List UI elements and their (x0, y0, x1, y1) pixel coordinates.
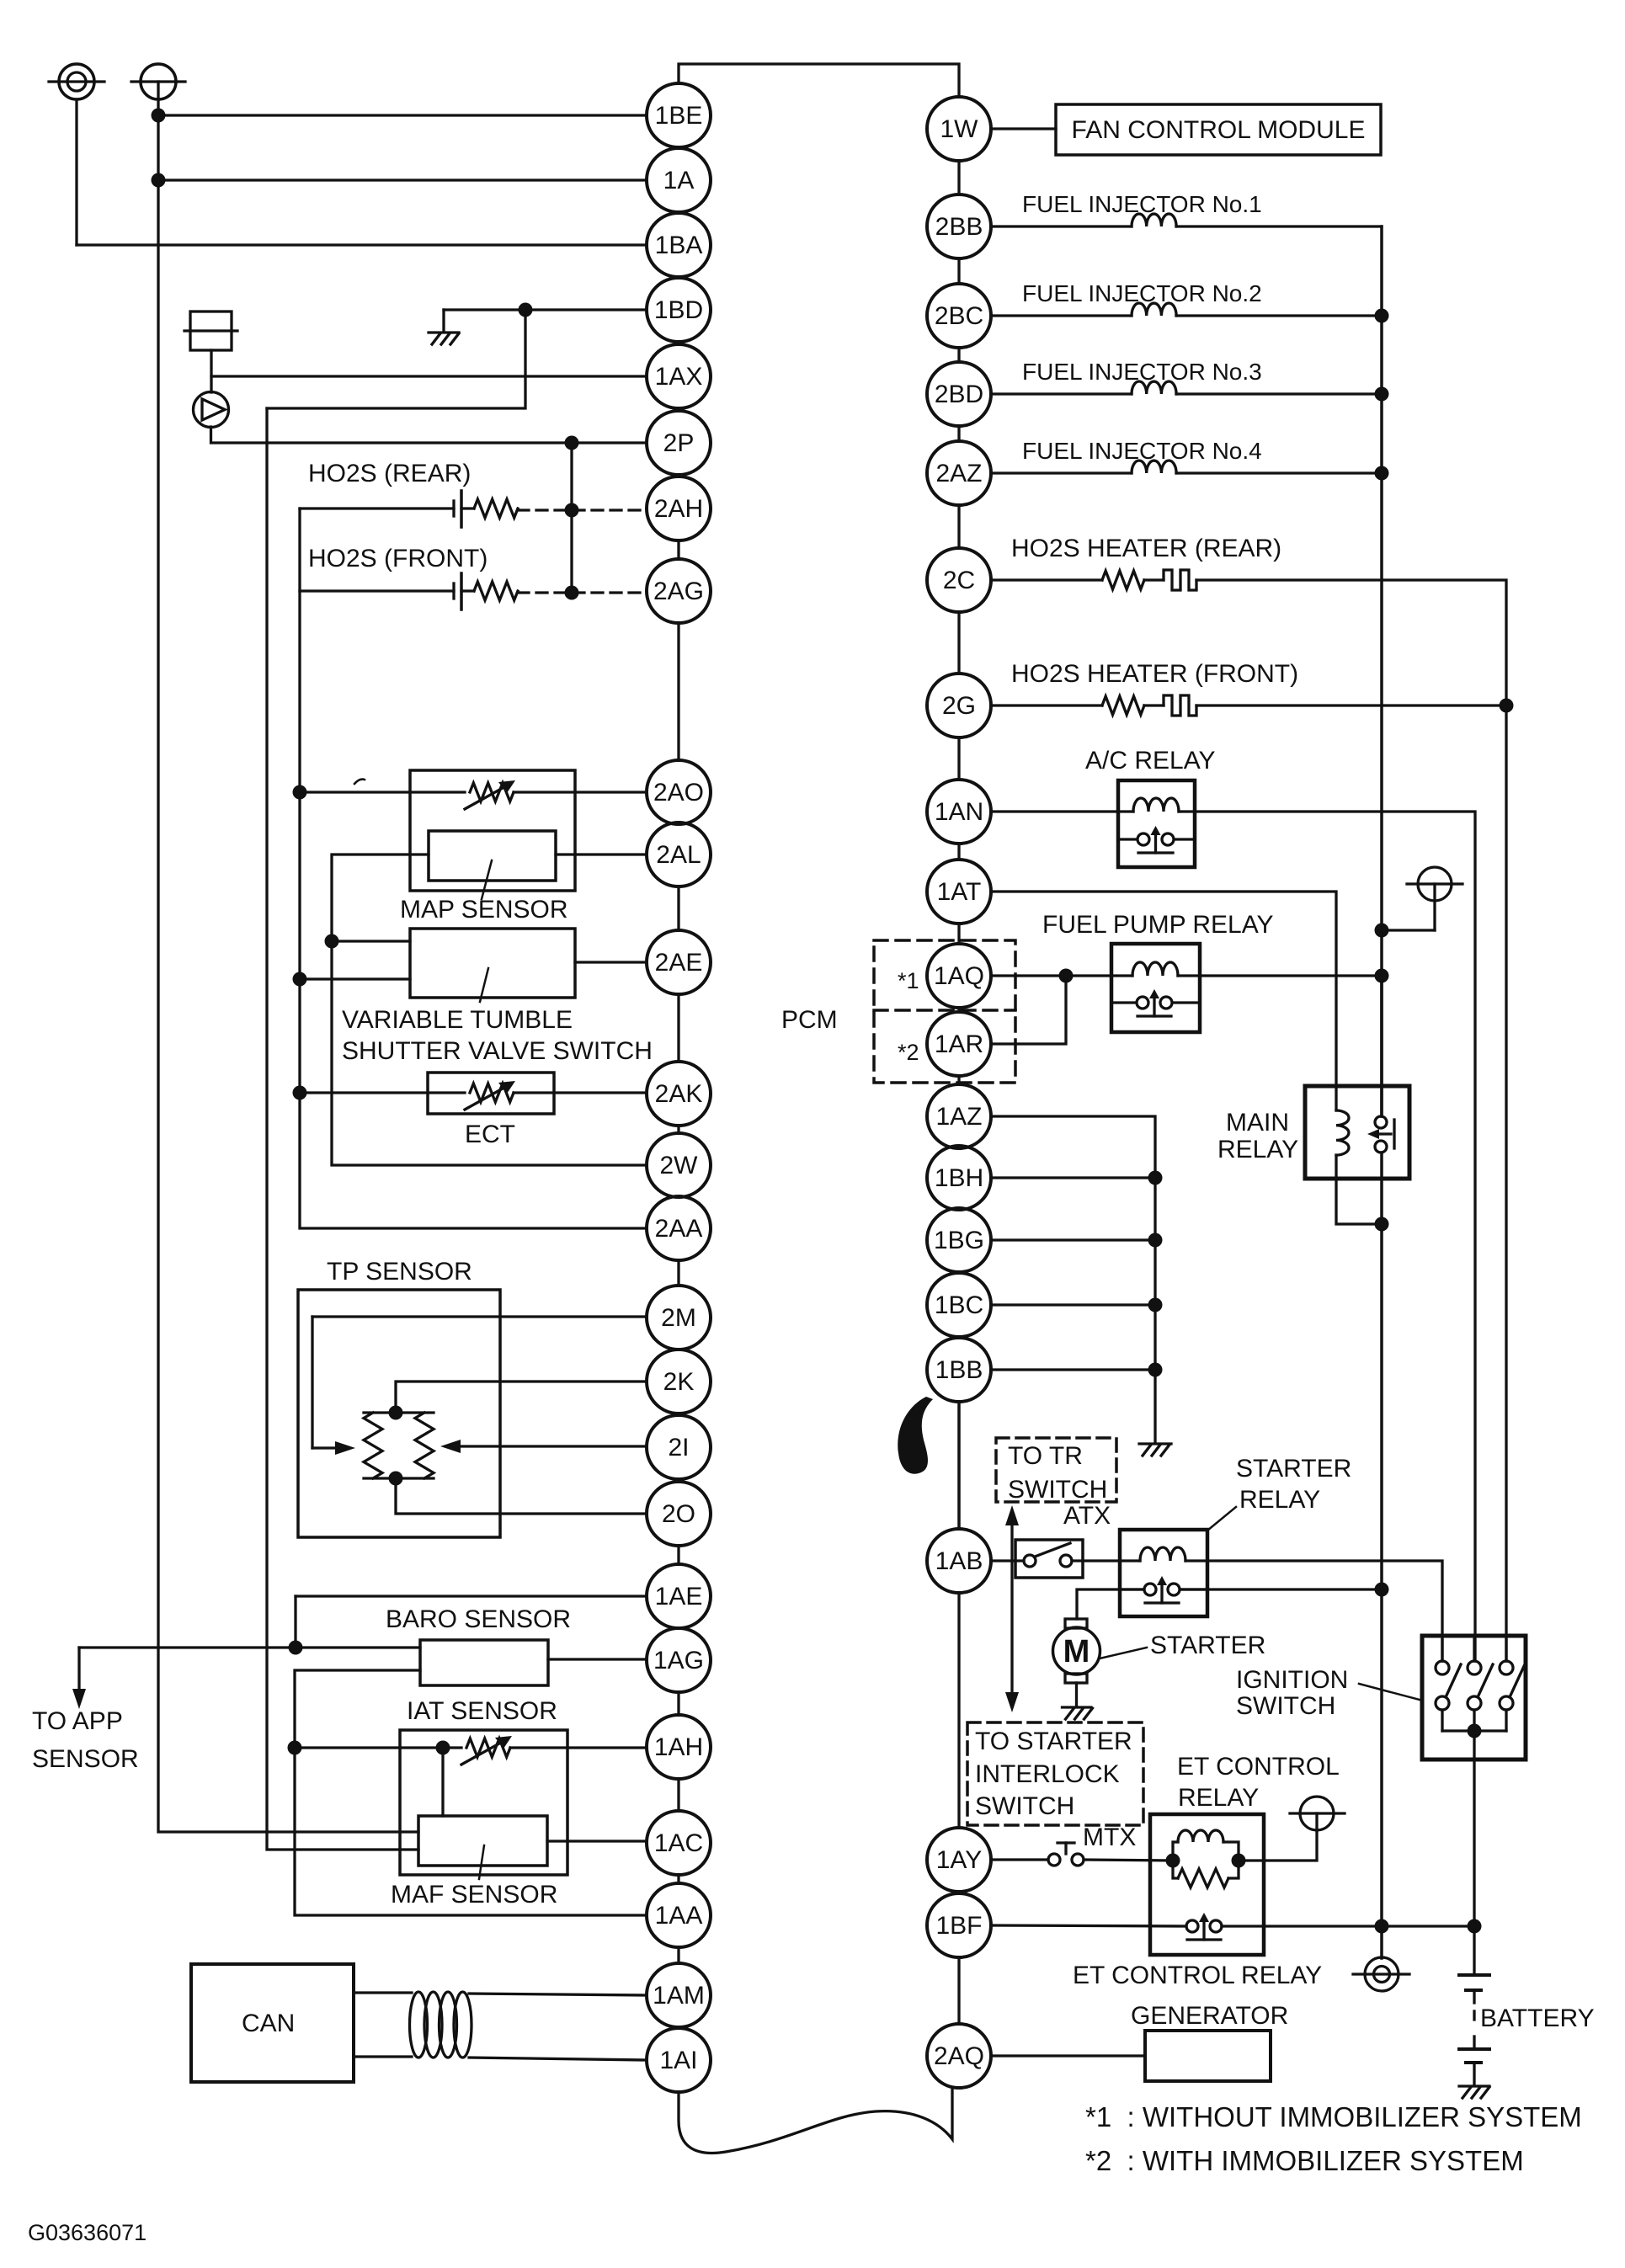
switch MTX (momentary) (1048, 1843, 1084, 1866)
wire 1W to module (991, 127, 1056, 130)
svg-text:SHUTTER VALVE SWITCH: SHUTTER VALVE SWITCH (342, 1037, 653, 1065)
node on VTSV lower wire (293, 972, 307, 987)
svg-text:1W: 1W (940, 115, 979, 143)
evap solenoid symbol (square) top-left (184, 311, 237, 392)
svg-text:2AQ: 2AQ (934, 2042, 984, 2070)
wire MTX to ET relay (1084, 1860, 1173, 1861)
resistor HO2S heater rear (1102, 571, 1144, 589)
pin 1BB (927, 1338, 991, 1402)
wire starter relay contact out (1180, 1588, 1382, 1590)
thermistor IAT (variable resistor) (466, 1738, 510, 1757)
pin 2BB (927, 194, 991, 258)
svg-text:2W: 2W (660, 1152, 699, 1179)
wire 1AC from MAF (547, 1839, 647, 1842)
wire 1AE (296, 1595, 647, 1597)
wire injector No.4 left (991, 471, 1132, 474)
svg-text:ET CONTROL: ET CONTROL (1177, 1753, 1340, 1781)
svg-text:M: M (1063, 1634, 1090, 1669)
svg-text:SENSOR: SENSOR (32, 1745, 139, 1773)
svg-text:HO2S HEATER (FRONT): HO2S HEATER (FRONT) (1011, 660, 1298, 688)
pin 1BE (647, 83, 711, 147)
svg-text:1BG: 1BG (934, 1227, 984, 1254)
node bus at G4 (1375, 924, 1389, 938)
pin 1AB (927, 1529, 991, 1593)
pin 2I (647, 1415, 711, 1479)
wire 1AR to join (991, 976, 1066, 1044)
svg-text:2M: 2M (661, 1304, 696, 1332)
ink blob artifact (898, 1397, 933, 1474)
stray mark r (354, 780, 365, 784)
wire dashed to 2AH (518, 508, 647, 511)
relay A/C (1118, 780, 1195, 867)
pcm divider dashed (874, 1009, 1015, 1012)
svg-text:FAN CONTROL MODULE: FAN CONTROL MODULE (1072, 116, 1366, 144)
ground G3 (chassis ground on 1BD wire) (429, 310, 459, 344)
node IAT inner (436, 1741, 450, 1755)
svg-text:1AA: 1AA (655, 1902, 703, 1930)
wire BARO lower-left (295, 1670, 647, 1915)
svg-text:TP SENSOR: TP SENSOR (327, 1258, 472, 1286)
wire bus x356 (sensor supply vertical) (300, 508, 647, 1228)
HO2S front sensor (battery symbol) (454, 573, 461, 610)
wire G2 long vertical down to MAF sensor (158, 99, 418, 1832)
callout starter motor (1100, 1648, 1147, 1658)
node on 2AH wire (565, 503, 579, 518)
arrow TP wiper right (from 2I) (460, 1445, 647, 1447)
wire 1AH right (510, 1746, 647, 1749)
node 1BG (1148, 1233, 1163, 1248)
ect box (428, 1073, 554, 1114)
ground G1 (double-circle body ground top-left) (49, 64, 104, 99)
svg-text:1AX: 1AX (655, 363, 703, 391)
pin 1AC (647, 1811, 711, 1875)
svg-text:2G: 2G (942, 692, 976, 720)
wire ECT right to 2AK (514, 1091, 647, 1094)
svg-text:SWITCH: SWITCH (1008, 1476, 1107, 1504)
svg-text:HO2S HEATER (REAR): HO2S HEATER (REAR) (1011, 535, 1281, 562)
svg-text:RELAY: RELAY (1178, 1784, 1259, 1812)
svg-text:2P: 2P (663, 429, 695, 457)
coil fuel injector No.1 (1132, 214, 1176, 226)
wire 1AZ (991, 1116, 1155, 1442)
svg-text:HO2S (REAR): HO2S (REAR) (308, 460, 471, 487)
svg-text:1BB: 1BB (935, 1356, 983, 1384)
svg-text:RELAY: RELAY (1239, 1486, 1320, 1514)
wire 1AG from BARO (548, 1658, 647, 1660)
wire links between left connector pins (677, 540, 679, 1963)
fan control module box (1056, 104, 1381, 155)
node on 2P wire (565, 436, 579, 450)
svg-text:CAN: CAN (242, 2010, 295, 2037)
svg-text:TO TR: TO TR (1008, 1442, 1083, 1470)
node TP bottom (389, 1472, 403, 1486)
pin 2AQ (927, 2024, 991, 2088)
pin 1AE (647, 1564, 711, 1628)
wire 1BE to 1W (top) (679, 64, 959, 97)
node ET coil left (1166, 1854, 1180, 1868)
svg-text:1BE: 1BE (655, 102, 703, 130)
svg-text:2BC: 2BC (935, 302, 983, 330)
wire TP bottom node to 2O (396, 1478, 647, 1514)
svg-text:A/C RELAY: A/C RELAY (1085, 747, 1216, 775)
pin 2AK (647, 1062, 711, 1126)
wire CAN lower (354, 2055, 412, 2058)
wire starter relay contact to motor (1077, 1589, 1143, 1619)
pin 1AZ (927, 1084, 991, 1148)
svg-text:VARIABLE TUMBLE: VARIABLE TUMBLE (342, 1006, 573, 1034)
pin 2C (927, 548, 991, 612)
svg-text:ET CONTROL RELAY: ET CONTROL RELAY (1073, 1962, 1322, 1989)
pin 1BD (647, 278, 711, 342)
svg-text:1AQ: 1AQ (934, 962, 984, 990)
starter motor (1053, 1619, 1100, 1719)
wire fuel pump relay out (1200, 974, 1382, 977)
wire 2AL from inner box (556, 853, 647, 855)
wire dashed to 2AG (518, 591, 647, 594)
node on 2AG wire (565, 586, 579, 600)
arrow TP wiper left (312, 1446, 337, 1449)
svg-text:SWITCH: SWITCH (1236, 1692, 1335, 1720)
svg-text:PCM: PCM (781, 1006, 838, 1034)
pin 2M (647, 1286, 711, 1350)
svg-text:1AB: 1AB (935, 1547, 983, 1575)
pin 2BD (927, 362, 991, 426)
svg-text:1BF: 1BF (935, 1912, 982, 1940)
tick MAP pointer (482, 860, 492, 899)
generator box (1145, 2031, 1271, 2081)
svg-text:1A: 1A (663, 167, 695, 194)
pin 1AA (647, 1883, 711, 1947)
maf sensor box (418, 1816, 547, 1866)
pin 2AG (647, 559, 711, 623)
wire heater bus down to ignition switch (1505, 705, 1507, 1661)
wire TP bottom bar (364, 1477, 434, 1479)
wire to 1AI (469, 2058, 647, 2060)
wire 1AN to A/C relay (991, 810, 1118, 812)
wire 1BB (991, 1368, 1155, 1371)
wire ignition common bar (1442, 1729, 1506, 1732)
svg-text:2O: 2O (662, 1500, 695, 1528)
pin 2AE (647, 930, 711, 994)
svg-text:TO APP: TO APP (32, 1707, 123, 1735)
node on 2AO wire (293, 785, 307, 800)
node main relay bottom join (1375, 1217, 1389, 1232)
node on VTSV upper wire (325, 934, 339, 949)
svg-text:2AA: 2AA (655, 1215, 703, 1243)
map sensor inner box (429, 831, 556, 881)
wire 1BH (991, 1176, 1155, 1179)
pin 2AZ (927, 441, 991, 505)
resistor TP left (vertical) (364, 1413, 382, 1478)
node heater join (1500, 699, 1514, 713)
pin 1BA (647, 213, 711, 277)
wire ECT left (300, 1091, 465, 1094)
resistor HO2S heater front (1102, 696, 1144, 715)
wire main relay contact to starter node (1380, 1153, 1383, 1589)
svg-text:1AH: 1AH (654, 1733, 703, 1761)
ground G7 (double circle ground bottom) (1353, 1957, 1409, 1991)
svg-text:2AO: 2AO (653, 779, 704, 807)
pin 2O (647, 1482, 711, 1546)
wire injector No.2 left (991, 314, 1132, 317)
node on ECT wire (293, 1086, 307, 1100)
wire starter relay coil out (1207, 1561, 1442, 1661)
tick MAF pointer (479, 1845, 484, 1879)
wire 2C right (1196, 580, 1506, 705)
baro sensor box (420, 1640, 548, 1685)
svg-text:*1 : WITHOUT IMMOBILIZER SYST: *1 : WITHOUT IMMOBILIZER SYSTEM (1085, 2101, 1582, 2132)
pin 1A (647, 148, 711, 212)
svg-text:1BC: 1BC (935, 1291, 983, 1319)
svg-text:STARTER: STARTER (1150, 1632, 1265, 1659)
coil fuel injector No.2 (1132, 303, 1176, 316)
svg-text:HO2S (FRONT): HO2S (FRONT) (308, 545, 487, 572)
svg-text:ECT: ECT (465, 1121, 515, 1148)
map sensor outer box (410, 770, 575, 891)
svg-text:INTERLOCK: INTERLOCK (975, 1760, 1120, 1788)
pin 1AM (647, 1963, 711, 2027)
svg-text:2AK: 2AK (655, 1080, 703, 1108)
wire 2G right (1196, 704, 1506, 706)
svg-text:BATTERY: BATTERY (1480, 2004, 1595, 2032)
svg-text:1AE: 1AE (655, 1583, 703, 1610)
svg-text:1AG: 1AG (653, 1647, 704, 1674)
wire injector No.3 right (1176, 392, 1382, 395)
wire 2C mid (1144, 578, 1164, 581)
thermistor MAP (variable resistor) (470, 783, 514, 801)
heater element front (1164, 695, 1196, 716)
pin 1AN (927, 780, 991, 844)
node 1BC (1148, 1298, 1163, 1312)
ground G5 (PCM grounds) (1139, 1442, 1171, 1445)
svg-text:TO STARTER: TO STARTER (975, 1728, 1132, 1755)
svg-text:GENERATOR: GENERATOR (1131, 2002, 1288, 2030)
node ignition common (1468, 1724, 1482, 1738)
callout starter relay (1207, 1507, 1236, 1531)
wire HO2S rear lead (461, 507, 474, 509)
heater element rear (1164, 570, 1196, 590)
et control relay box (1150, 1814, 1264, 1955)
node battery at 1BF wire (1468, 1919, 1482, 1934)
pin 1AY (927, 1828, 991, 1892)
svg-text:MAP SENSOR: MAP SENSOR (400, 896, 568, 924)
wire 1AE corner down (294, 1596, 296, 1648)
wire long vertical x317 down to MAF sensor (267, 408, 418, 1850)
svg-text:2I: 2I (668, 1434, 689, 1461)
ignition switch box (1422, 1636, 1526, 1760)
node bus at 1BF wire (1375, 1919, 1389, 1934)
svg-text:FUEL PUMP RELAY: FUEL PUMP RELAY (1042, 911, 1274, 939)
node on G2 wire at 1A (152, 173, 166, 188)
coil main relay (1336, 1110, 1349, 1155)
wire VTSV upper (332, 940, 410, 942)
svg-text:1BA: 1BA (655, 232, 703, 259)
pin 1AI (647, 2028, 711, 2092)
wire 1BA (77, 243, 647, 246)
wire 1BF to ET contact (991, 1925, 1186, 1926)
node ET coil right (1232, 1854, 1246, 1868)
pin 2AO (647, 760, 711, 824)
to tr switch dashed box (996, 1438, 1116, 1502)
wire HO2S front left (300, 589, 454, 592)
wire CAN upper (354, 1991, 412, 1994)
vtsv box (410, 929, 575, 998)
svg-text:SWITCH: SWITCH (975, 1792, 1074, 1820)
pin 1W (927, 97, 991, 161)
wire 1AY to MTX (991, 1858, 1048, 1861)
wire 2AL left segment to vertical (332, 854, 647, 1165)
wire 1AX (211, 375, 647, 377)
wire 2AO left segment (300, 791, 465, 793)
contact ET relay (1186, 1913, 1222, 1940)
svg-text:1BD: 1BD (654, 296, 703, 324)
svg-text:1BH: 1BH (935, 1164, 983, 1192)
svg-text:*2: *2 (898, 1040, 919, 1065)
twisted pair coil (CAN) (410, 1992, 428, 2058)
wire 2AO right segment (514, 791, 647, 793)
battery (1459, 1975, 1489, 2085)
tick VTSV pointer (480, 968, 488, 1002)
resistor HO2S rear (474, 499, 518, 518)
switch ATX (1015, 1540, 1083, 1578)
wire bus x679 (2P to HO2S signals) (570, 443, 573, 591)
pin 1BF (927, 1893, 991, 1957)
node on 1AH wire (288, 1741, 302, 1755)
wire ATX to starter relay (1072, 1559, 1120, 1562)
svg-text:2AL: 2AL (656, 841, 701, 869)
wire 1AI to 2AQ (bottom S-curve) (679, 2088, 952, 2153)
coil fuel injector No.3 (1132, 381, 1176, 394)
pin 2AH (647, 476, 711, 540)
pin 2AA (647, 1196, 711, 1260)
node injector No.3 (1375, 387, 1389, 402)
pin 1AQ (927, 944, 991, 1008)
pin 2G (927, 673, 991, 737)
wire 1BG (991, 1238, 1155, 1241)
ground G6 (ET relay ground) (1290, 1797, 1345, 1831)
svg-text:2AE: 2AE (655, 949, 703, 977)
pin 1BG (927, 1208, 991, 1272)
wire injector No.1 right (1176, 225, 1382, 227)
svg-text:2AH: 2AH (654, 495, 703, 523)
wire to 1AM (469, 1994, 647, 1995)
node injector No.4 (1375, 466, 1389, 481)
wire 1BE (158, 114, 647, 116)
ground G2 (circle body ground top-left) (131, 64, 185, 99)
svg-text:MAIN: MAIN (1226, 1109, 1289, 1137)
wire IAT node down to MAF (441, 1748, 444, 1816)
svg-text:IAT SENSOR: IAT SENSOR (407, 1697, 557, 1725)
wire 1AQ (991, 974, 1111, 977)
svg-text:MAF SENSOR: MAF SENSOR (391, 1881, 557, 1909)
svg-text:2BB: 2BB (935, 213, 983, 241)
wire A/C relay out (1195, 812, 1475, 1661)
svg-text:1AT: 1AT (937, 878, 982, 906)
pin 1BC (927, 1273, 991, 1337)
wire 1A (158, 178, 647, 181)
wire 1AB to ATX switch (991, 1559, 1024, 1562)
wire injector No.2 right (1176, 314, 1382, 317)
node fuel pump coil to bus (1375, 969, 1389, 983)
wire bus to ground G7 (1380, 1589, 1383, 1958)
wire from 1BD node down-left to long vertical (267, 310, 525, 408)
wire injector No.3 left (991, 392, 1132, 395)
wire 1AT to main relay (991, 892, 1336, 1110)
svg-text:2K: 2K (663, 1368, 695, 1396)
to starter interlock dashed box (967, 1722, 1143, 1825)
tp sensor outer box (298, 1290, 500, 1537)
wire TP left vertical (311, 1317, 313, 1448)
svg-text:ATX: ATX (1063, 1502, 1111, 1530)
can module box (191, 1964, 354, 2082)
svg-text:1AC: 1AC (654, 1829, 703, 1857)
wire ground G4 to bus (1382, 929, 1435, 931)
svg-text:MTX: MTX (1083, 1823, 1136, 1851)
svg-text:1AM: 1AM (653, 1982, 705, 2010)
wire 2AQ to generator (991, 2054, 1145, 2057)
wire 2M (312, 1315, 647, 1318)
node TP top (389, 1406, 403, 1420)
callout ignition switch (1359, 1684, 1420, 1700)
wire 2AE (575, 961, 647, 963)
pin 1AX (647, 344, 711, 408)
resistor HO2S front (474, 582, 518, 600)
wire G1 down to 1BA wire (75, 99, 77, 245)
wire HO2S front lead (461, 589, 474, 592)
svg-text:2AZ: 2AZ (935, 460, 982, 487)
wire 1BD (444, 308, 647, 311)
wire TP top node to 2K (396, 1382, 647, 1413)
svg-text:1AI: 1AI (659, 2047, 697, 2074)
svg-text:2BD: 2BD (935, 381, 983, 408)
wire TO APP SENSOR branch (79, 1646, 420, 1648)
pin 2BC (927, 284, 991, 348)
svg-text:*1: *1 (898, 968, 919, 993)
wire main relay coil bottom (1336, 1155, 1382, 1224)
svg-text:G03636071: G03636071 (28, 2220, 147, 2245)
pcm dashed box (874, 940, 1015, 1083)
svg-text:1AN: 1AN (935, 798, 983, 826)
wire 1BB to 1AB (957, 1402, 960, 1529)
svg-text:1AY: 1AY (936, 1846, 982, 1874)
contact main relay (1367, 1116, 1394, 1153)
pin 2AL (647, 823, 711, 886)
coil ET relay (1173, 1842, 1178, 1861)
wire 2G left (991, 704, 1102, 706)
svg-text:BARO SENSOR: BARO SENSOR (386, 1605, 571, 1633)
node 1BH (1148, 1171, 1163, 1185)
wire bus into main relay contact (1380, 976, 1383, 1116)
svg-text:2AG: 2AG (653, 578, 704, 605)
resistor TP right (vertical) (415, 1413, 434, 1478)
wire ET contact out (1222, 1925, 1474, 1927)
svg-text:RELAY: RELAY (1217, 1136, 1298, 1163)
arrow TO APP (down) (77, 1648, 80, 1690)
svg-text:1AR: 1AR (935, 1030, 983, 1058)
relay STARTER (1120, 1530, 1207, 1616)
svg-text:STARTER: STARTER (1236, 1455, 1351, 1483)
pin 1BH (927, 1146, 991, 1210)
thermistor ECT (variable resistor) (470, 1083, 514, 1102)
resistor ET relay (1173, 1861, 1178, 1878)
node on 1BD wire (519, 303, 533, 317)
wire ignition common down to battery (1473, 1731, 1475, 1973)
relay FUEL PUMP (1111, 944, 1200, 1032)
svg-text:1AZ: 1AZ (935, 1103, 982, 1131)
wire pump to 2P (211, 427, 647, 443)
node starter contact to bus (1375, 1583, 1389, 1597)
iat outer box (400, 1730, 567, 1875)
